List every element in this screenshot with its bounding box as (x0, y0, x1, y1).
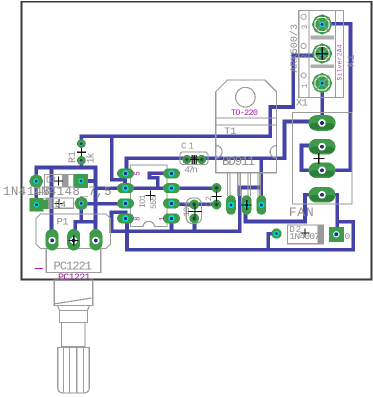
P1 knurled knob (58, 348, 90, 394)
svg-text:1k: 1k (86, 153, 98, 164)
T1 lead lines (228, 173, 261, 196)
svg-text:2: 2 (301, 54, 310, 59)
wire D4 rp drop (80, 209, 84, 222)
svg-text:555: 555 (149, 196, 159, 210)
resistor R1 pad bottom (77, 156, 86, 165)
pot P1 right pad (89, 229, 102, 251)
svg-text:K1: K1 (347, 55, 358, 68)
svg-text:PC1221: PC1221 (54, 260, 93, 274)
pot P1 center pad (67, 229, 80, 251)
svg-text:IO1: IO1 (138, 195, 148, 209)
wire P1 center drop (74, 222, 78, 231)
X1 divider bar bottom (311, 64, 335, 68)
wire pin8 down to bottom rail (125, 218, 129, 249)
wire rail to x95.5 riser (81, 168, 95, 230)
wire pin5 drop from C1 rail (125, 158, 129, 173)
X1 pin 2 marker (301, 43, 310, 58)
IC IO1 pin1 pad (163, 213, 180, 223)
T1 left notch (216, 146, 222, 158)
IC IO1 pin5 pad (117, 169, 134, 179)
svg-text:T1: T1 (224, 126, 237, 138)
IC IO1 pin7 pad (117, 198, 134, 208)
wire rail top from R1 top to T1 riser (81, 56, 322, 144)
P1 shaft taper line (62, 322, 86, 324)
pot P1 left pad (46, 229, 59, 251)
FAN pad 4 (309, 187, 336, 203)
wire pin2 to C2 top to R2 bottom (172, 202, 217, 206)
wire pin4 internal staircase (150, 173, 172, 188)
wire C2 bottom drop (193, 220, 197, 231)
svg-text:Silver2A4: Silver2A4 (336, 44, 343, 80)
wire FAN pad4 left riser (305, 195, 311, 222)
wire bottom mid rail (112, 230, 240, 234)
wire D3 rp stub (87, 179, 96, 183)
diode D2 body (288, 225, 324, 244)
wire pin6 feed from rail (112, 136, 125, 188)
svg-text:C2: C2 (204, 196, 214, 207)
capacitor C1 left pad (182, 155, 191, 164)
X1 divider bar top (311, 36, 335, 40)
diode D4 right pad (octagon) (74, 196, 88, 210)
wire FAN pad4 to D2 right pad (335, 195, 339, 235)
P1 value dash (magenta) (34, 268, 43, 269)
P1 bushing slot line (55, 298, 91, 304)
wire pin8 feed (112, 212, 126, 231)
svg-text:47n: 47n (184, 165, 198, 176)
wire P1 left pad drop (50, 168, 54, 241)
wire D3 lp to D4 lp (34, 181, 38, 205)
wire pin6 to pin3 row (96, 186, 172, 190)
wire T1 right pad riser (260, 158, 264, 200)
svg-text:TO-220: TO-220 (231, 108, 258, 118)
wire bottom rail (127, 248, 353, 252)
wire R1 bottom rail (36, 160, 81, 181)
T1 pad 1 (226, 195, 236, 215)
svg-text:8: 8 (135, 217, 143, 221)
capacitor C1 origin cross (190, 155, 199, 164)
capacitor C2 polarity cross (188, 207, 202, 217)
FAN pad 2 (309, 139, 336, 155)
wire D2 right loop (337, 222, 353, 250)
connector FAN outline (293, 113, 352, 205)
diode D3 left pad (octagon) (29, 174, 43, 188)
diode D2 origin cross (300, 228, 309, 237)
diode D4 body (45, 198, 74, 208)
FAN pad 3 (309, 163, 336, 179)
T1 pad 3 (257, 195, 267, 215)
potentiometer P1 body (36, 214, 111, 249)
capacitor C1 right pad (197, 155, 206, 164)
svg-text:X1: X1 (296, 97, 308, 109)
IC IO1 body (130, 165, 167, 227)
IC IO1 origin cross (145, 190, 155, 200)
wire C1 rail (127, 157, 285, 161)
svg-text:C1: C1 (181, 142, 194, 152)
diode D2 right pad (square) (329, 227, 344, 242)
capacitor C1 outline (180, 152, 208, 165)
P1 bushing (54, 280, 92, 305)
board outline (22, 2, 372, 280)
IC IO1 pin4 pad (163, 169, 180, 179)
FAN origin cross (313, 153, 324, 164)
transistor T1 body outline (216, 80, 277, 173)
wire mid riser (238, 188, 242, 232)
P1 lower body (46, 249, 101, 273)
resistor R2 top pad (212, 183, 222, 193)
diode D2 cathode band (317, 226, 323, 244)
diode D4 cathode band (46, 199, 53, 208)
wire D4 rp to pin7 (86, 202, 126, 206)
P1 shaft upper (60, 311, 88, 323)
wire mid link (240, 186, 262, 190)
resistor R2 bottom pad (212, 200, 222, 210)
P1 shaft mid (62, 323, 86, 348)
diode D3 body (44, 174, 73, 187)
capacitor C2 outline (186, 198, 201, 224)
X1 pad 2 (middle) (312, 43, 332, 63)
X1 inner line left (308, 11, 310, 98)
T1 mounting hole (236, 87, 256, 107)
svg-text:FAN: FAN (289, 205, 314, 220)
svg-text:R1: R1 (68, 151, 79, 163)
svg-text:ARK500/3: ARK500/3 (289, 24, 301, 73)
wire FAN pad2-pad3 U link (302, 146, 312, 171)
diode D4 left pad (square) (30, 198, 48, 212)
X1 inner line right (334, 11, 336, 98)
svg-text:1: 1 (159, 217, 167, 221)
P1 knurl lines (64, 348, 84, 394)
FAN pad 1 (309, 115, 336, 131)
svg-text:3: 3 (301, 25, 310, 30)
capacitor C1 plates (192, 155, 196, 164)
diode D3 origin cross (54, 177, 63, 186)
P1 shaft shoulder (58, 306, 90, 311)
IC IO1 pin8 pad (117, 213, 134, 223)
IC IO1 pin3 pad (163, 183, 180, 193)
wire P1 jumper horizontal (75, 220, 95, 224)
svg-text:D3: D3 (46, 176, 56, 186)
P1 shaft line (62, 346, 86, 348)
svg-text:1: 1 (301, 83, 310, 88)
diode D4 origin cross (55, 199, 64, 208)
svg-text:1N4007: 1N4007 (290, 231, 321, 242)
wire pin3 to R2 top (172, 186, 217, 190)
X1 pad 3 (top) (312, 14, 332, 34)
T1 right notch (270, 146, 276, 158)
svg-text:1N4148_7,5: 1N4148_7,5 (33, 185, 112, 199)
diode D2 left pad (271, 228, 281, 238)
X1 pin 1 marker (301, 73, 310, 88)
wire FAN pad4 stub (330, 193, 337, 197)
IC IO1 pin6 pad (117, 183, 134, 193)
wire X1 pad3 to FAN pad3 (322, 24, 350, 170)
wire D2 left pad link (268, 234, 272, 250)
T1 step line 1 (216, 117, 277, 119)
wire X1 pad1 down to FAN pad1 (320, 84, 324, 123)
svg-text:PC1221: PC1221 (58, 273, 91, 284)
capacitor C2 bottom pad (189, 214, 199, 224)
T1 step line 2 (216, 124, 277, 126)
X1 pin 3 marker (301, 14, 310, 29)
resistor R2 origin cross (212, 192, 222, 202)
X1 pad 1 (bottom) (312, 73, 332, 93)
svg-text:P1: P1 (57, 217, 69, 229)
diode D3 cathode band (62, 175, 69, 187)
svg-text:BD911: BD911 (222, 155, 255, 169)
wire FAN pad1 feed (285, 122, 312, 159)
wire pin1 drop (170, 218, 174, 231)
connector X1 outline (299, 11, 344, 98)
IC IO1 pin2 pad (163, 198, 180, 208)
svg-text:10µ: 10µ (182, 203, 192, 217)
svg-text:5: 5 (135, 171, 143, 175)
resistor R1 origin cross (77, 148, 86, 157)
diode D3 right pad (square) (74, 174, 88, 188)
capacitor C2 top pad (189, 200, 199, 210)
svg-text:D4: D4 (55, 200, 66, 210)
T1 pad 2 (242, 195, 252, 215)
wire T1 mid pad rail (246, 211, 306, 222)
resistor R1 pad top (77, 139, 86, 148)
IO1 pin4 marker dash (156, 172, 162, 174)
svg-text:0: 0 (345, 231, 351, 242)
